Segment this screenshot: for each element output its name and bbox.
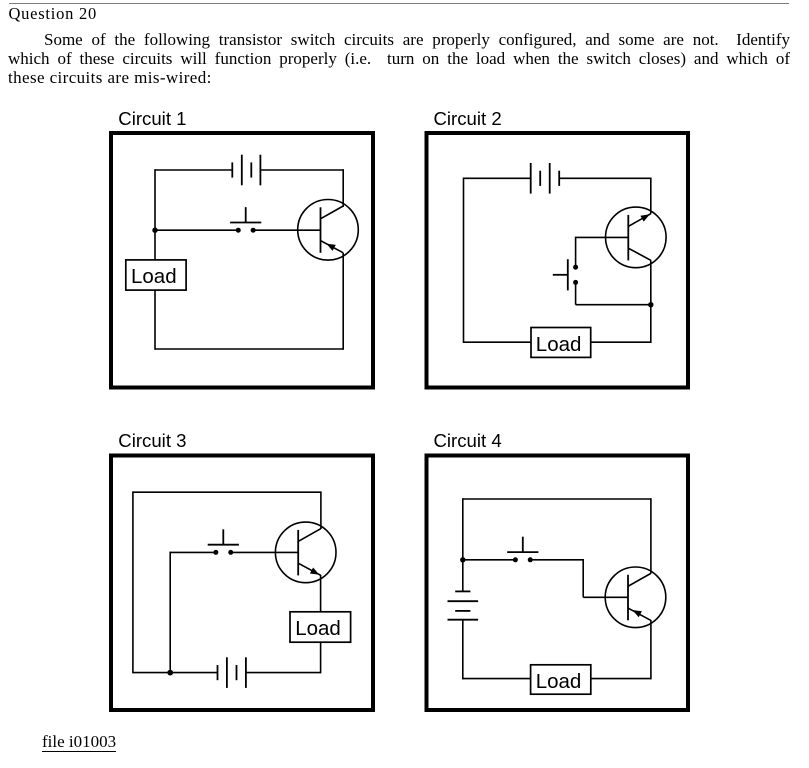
circuit 3: bottom wire right segment [246,672,321,674]
circuit 1: transistor Q1 (PNP) [298,200,359,261]
circuit 3: base wire [231,551,298,553]
circuit 3: pushbutton switch S3 [213,550,218,555]
circuit 1: battery B1 [231,162,233,177]
circuit 2: left vertical wire [463,178,465,344]
top horizontal rule [9,3,789,4]
heading: Question 20 [9,6,97,23]
circuit 3: Q3 emitter arrow (points out) [310,568,320,575]
load label circuit 3 [295,619,341,640]
circuit 1: base wire right segment [253,229,320,231]
circuit 4: wire battery to bottom [462,620,464,680]
circuit 2: right wire down to transistor [650,178,652,214]
load label circuit 1 [131,267,177,288]
circuit 1: emitter lead wire down [342,253,344,350]
circuit 4: junction dot left [460,557,465,562]
circuit 2: top wire left segment [464,177,531,179]
circuit 1: base wire left segment [155,229,238,231]
circuit 2: junction dot on collector lead [648,302,653,307]
circuit 4: wire junction to switch [463,559,516,561]
load label circuit 4 [536,672,582,693]
circuit 2: bottom wire left segment [464,341,532,343]
circuit 3: battery B3 [217,665,219,680]
circuit 4: Q4 emitter arrow (points toward base) [632,610,642,617]
circuit 3: bottom wire left segment [133,672,218,674]
paragraph text [8,30,790,87]
circuit 1: load resistor box [126,260,186,290]
circuit 1: wire battery to top-right corner [260,169,343,171]
circuit 4: right wire down to transistor [650,498,652,573]
circuit 4 enclosure box [427,456,689,711]
circuit 3: left outer wire [132,491,134,673]
circuit 4: bottom wire left segment [463,678,531,680]
label circuit 3 [118,432,186,451]
label circuit 4 [434,432,502,451]
load label circuit 2 [536,335,582,356]
circuit 4: top wire [463,498,651,500]
circuit 2: load resistor box [531,328,591,358]
circuit 1: node junction dot [152,228,157,233]
circuit 2: wire down to switch [575,237,577,268]
circuit 4: bottom wire right segment [591,678,651,680]
circuit 1: wire top-left to battery [155,169,232,171]
circuit 2: base wire horizontal [576,236,629,238]
circuit 3 enclosure box [111,456,373,711]
circuit 2 enclosure box [427,133,689,388]
circuit 2: pushbutton switch S2 (vertical) [573,265,578,270]
circuit 3: transistor Q3 (NPN) [275,522,336,583]
circuit 4: left wire down [462,498,464,591]
circuit 4: wire switch to corner and down to base [530,559,583,561]
circuit 3: load resistor box [290,612,351,642]
circuit 1: collector lead wire down [342,169,344,207]
circuit 3: wire load to bottom [320,642,322,673]
circuit 2: transistor Q2 [606,207,667,268]
circuit 2: collector lead wire down [650,260,652,343]
circuit 1: bottom wire [155,348,343,350]
circuit 2: bottom wire right segment [591,341,651,343]
circuit 2: Q2 emitter arrow on top limb (points out) [640,214,650,221]
circuit 4: transistor Q4 (PNP) [605,567,666,628]
circuit 4: load resistor box [531,665,591,694]
circuit 3: top wire [133,491,321,493]
circuit 3: junction dot bottom [167,670,173,676]
circuit 3: inner left wire down [169,552,171,673]
circuit 4: emitter lead wire down [650,620,652,679]
circuit 4: battery B4 (vertical) [455,590,470,592]
label circuit 1 [118,110,186,129]
circuit 1: pushbutton switch S1 [236,228,241,233]
circuit 4: pushbutton switch S4 [513,557,518,562]
footer file reference [42,733,116,752]
circuit 1 enclosure box [111,133,373,388]
circuit 2: wire switch to bottom junction [575,282,577,304]
label circuit 2 [434,110,502,129]
circuit 2: top wire right segment [559,177,651,179]
circuit 1: left vertical wire [154,169,156,260]
circuit 2: battery B2 [530,163,532,194]
circuit 3: wire switch to inner left [170,551,216,553]
circuit 3: collector lead wire down [320,491,322,529]
circuit 1: Q1 emitter arrow (points toward base) [326,244,336,251]
circuit 1: wire load to bottom [154,290,156,350]
circuit 3: emitter lead to load [320,575,322,612]
